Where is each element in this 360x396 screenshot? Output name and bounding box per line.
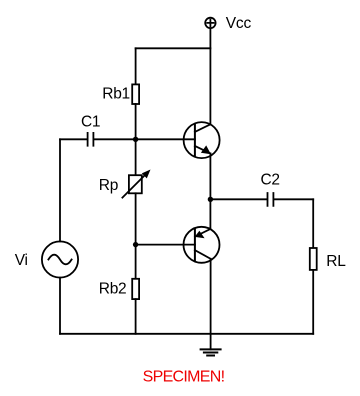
wire Rb1 top: [135, 48, 137, 84]
wire C2 to output corner: [274, 198, 313, 200]
wire node C to C2: [210, 198, 267, 200]
wire top horizontal to Rb1: [136, 47, 211, 49]
wire input bottom segment: [59, 278, 61, 334]
wire Q1 emitter to Q2 top: [209, 153, 211, 229]
resistor RL: [310, 248, 317, 270]
resistor Rb2: [132, 279, 139, 299]
source Vi: [42, 241, 78, 277]
transistor Q1: [184, 122, 220, 158]
wire node B to Q2 base: [136, 244, 195, 246]
wire RL bottom: [312, 270, 314, 334]
wire Q2 emitter to ground: [210, 259, 212, 350]
wire output corner down to RL: [312, 199, 314, 248]
wire Vcc to Q1 collector: [209, 28, 211, 124]
wire bottom rail: [60, 333, 313, 335]
svg-text:Rp: Rp: [99, 177, 118, 194]
node A junction dot: [133, 137, 138, 142]
ground: [201, 349, 221, 355]
node B junction dot: [133, 242, 138, 247]
wire input top segment: [59, 139, 61, 241]
wire Rp to node B: [135, 193, 137, 244]
wire node B to Rb2: [135, 245, 137, 279]
svg-text:Vi: Vi: [15, 252, 28, 269]
svg-text:C2: C2: [261, 172, 280, 189]
wire Rb2 to bottom rail: [135, 299, 137, 334]
svg-text:Vcc: Vcc: [226, 15, 252, 32]
wire node A to Rp: [135, 139, 137, 175]
svg-text:RL: RL: [326, 253, 346, 270]
wire input to C1: [60, 138, 87, 140]
power symbol Vcc: [205, 18, 215, 28]
transistor Q2: [184, 227, 220, 263]
potentiometer Rp: [122, 170, 150, 198]
svg-text:SPECIMEN!: SPECIMEN!: [143, 369, 225, 386]
svg-text:C1: C1: [81, 113, 100, 130]
capacitor C2: [268, 193, 274, 206]
capacitor C1: [88, 133, 94, 146]
node C junction dot: [208, 197, 213, 202]
wire C1 to Q1 base: [94, 138, 195, 140]
svg-text:Rb1: Rb1: [102, 86, 130, 103]
svg-text:Rb2: Rb2: [99, 280, 127, 297]
wire Rb1 bottom to node A: [135, 104, 137, 139]
resistor Rb1: [132, 84, 139, 104]
